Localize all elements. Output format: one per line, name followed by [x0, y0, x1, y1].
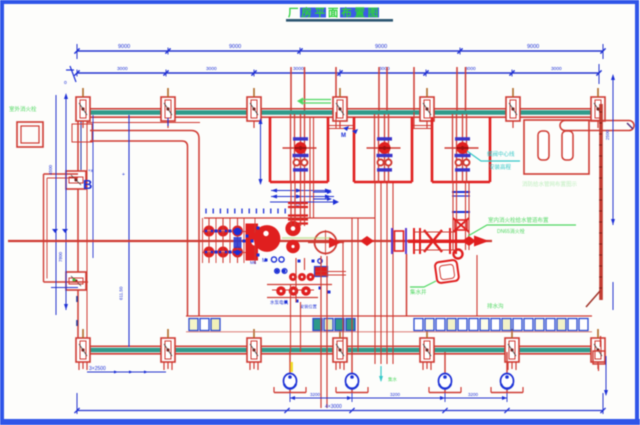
- bay 1 penstock pipes: [291, 114, 305, 183]
- bottom wall red edge lower: [83, 353, 598, 355]
- svg-text:室内消火栓给水管道布置: 室内消火栓给水管道布置: [488, 216, 549, 224]
- drain drop from expansion joint: [406, 254, 408, 316]
- yellow level tick: [290, 362, 293, 372]
- svg-text:7800: 7800: [58, 251, 63, 262]
- bay 3 chamber walls: [432, 117, 490, 182]
- room stair slots: [538, 131, 573, 160]
- bay1 tee flanges: [288, 200, 308, 226]
- drainage pump P3: [429, 352, 461, 393]
- small red box above valve: [455, 220, 467, 230]
- bay 2 penstock pipes: [375, 114, 389, 183]
- svg-text:3200: 3200: [390, 392, 401, 397]
- inner blue line near left wall: [92, 115, 94, 258]
- green sump leader: [410, 281, 436, 296]
- svg-text:o: o: [64, 80, 67, 86]
- connector lines between bays: [329, 126, 432, 129]
- expansion joint: [392, 228, 406, 254]
- floor hatch: [435, 260, 460, 284]
- svg-text:2500: 2500: [605, 129, 610, 140]
- bay 1 butterfly valve: [283, 137, 317, 171]
- svg-text:安装高程: 安装高程: [489, 163, 512, 171]
- bay1 left vertical dim: [259, 118, 263, 185]
- svg-text:集水: 集水: [388, 376, 397, 383]
- svg-text:+x: +x: [88, 168, 94, 173]
- cyan level mark: [379, 366, 397, 383]
- dimension line B (bays, top): [74, 64, 601, 84]
- under-bay1 dimension arrows: [271, 189, 334, 209]
- svg-text:9000: 9000: [375, 44, 387, 50]
- top wall red edge lower: [83, 116, 598, 118]
- svg-text:B: B: [83, 177, 92, 192]
- flange plates: [246, 218, 259, 264]
- svg-text:水泵电机: 水泵电机: [270, 299, 288, 306]
- svg-text:4500: 4500: [48, 164, 53, 175]
- right wall lower: [593, 336, 605, 371]
- svg-text:9000: 9000: [118, 44, 130, 50]
- bay 2 chamber walls: [354, 117, 412, 182]
- svg-text:M: M: [262, 258, 266, 264]
- bay2 pipes down to wall: [375, 183, 393, 364]
- left wall outer line: [77, 97, 79, 350]
- svg-text:室外消火栓: 室外消火栓: [9, 105, 37, 113]
- svg-text:DN65消火栓: DN65消火栓: [497, 228, 525, 235]
- bay 2 butterfly valve: [367, 137, 401, 171]
- red pipe risers above wall: [291, 67, 466, 112]
- blue tick below wall col2: [167, 118, 169, 126]
- title highlight box 2: [340, 8, 379, 18]
- title highlight box 1: [300, 8, 326, 18]
- gate valve with cross: [414, 228, 456, 254]
- dim left end marks: [64, 66, 76, 86]
- svg-text:3000: 3000: [206, 66, 217, 72]
- svg-text:集水井: 集水井: [410, 288, 427, 296]
- blue control valve: [234, 228, 242, 255]
- bay3 pipes down: [453, 183, 469, 250]
- bay 3 penstock pipes: [453, 114, 467, 183]
- svg-text:4×3000: 4×3000: [325, 404, 342, 410]
- upper manifold header line: [204, 217, 375, 219]
- bay3 inline valve: [453, 218, 469, 232]
- left wall inner line: [86, 119, 88, 346]
- green hydrant leader: [468, 216, 576, 236]
- svg-text:3×2500: 3×2500: [89, 366, 106, 372]
- svg-text:蝶阀中心线: 蝶阀中心线: [487, 150, 515, 158]
- drain pipe riser x336: [335, 112, 337, 129]
- title underline: [286, 19, 393, 22]
- dimension line A (overall, top): [74, 44, 605, 59]
- drain pipe riser x414: [413, 112, 415, 129]
- left vertical dimension lines: [48, 93, 78, 326]
- drainage pump P2: [336, 352, 368, 393]
- red flow arrows on centerline: [360, 236, 489, 247]
- svg-text:厂房平面布置图: 厂房平面布置图: [288, 6, 381, 19]
- svg-text:M: M: [341, 133, 346, 139]
- bay 3 butterfly valve: [445, 137, 479, 171]
- svg-text:消防给水管网布置图示: 消防给水管网布置图示: [522, 180, 578, 188]
- cyan leader and labels: [467, 150, 520, 171]
- svg-text:3200: 3200: [468, 392, 479, 397]
- blue bolt marks: [215, 227, 331, 311]
- svg-text:3000: 3000: [551, 66, 562, 72]
- machine pit edge (double line): [90, 131, 199, 317]
- right room walls: [524, 120, 589, 174]
- border frame bottom band: [0, 419, 640, 425]
- svg-text:3000: 3000: [117, 66, 128, 72]
- valve train thick centerline: [408, 240, 472, 243]
- svg-text:611.50: 611.50: [119, 286, 124, 300]
- main horizontal centerline: [8, 240, 492, 242]
- bottom overall dimension: [74, 393, 605, 414]
- penstock/drain verticals: [291, 218, 478, 408]
- walkway / hatch strip: [186, 316, 592, 332]
- small donut row: [289, 273, 315, 281]
- left bottom sub dim: [87, 366, 166, 374]
- red box with blue edge: [315, 267, 328, 277]
- top wall columns row: [76, 88, 605, 128]
- svg-text:+: +: [122, 172, 125, 178]
- bottom wall red edge upper: [83, 345, 598, 347]
- pump spacing dims: [290, 392, 507, 402]
- bay3 drain ring: [454, 250, 463, 259]
- bottom wall columns row: [76, 329, 605, 369]
- bottom wall teal band: [83, 348, 598, 353]
- green leader top: [297, 98, 331, 106]
- drainage pump P1: [274, 352, 306, 393]
- blue guide line with arrow: [270, 199, 339, 205]
- svg-text:3000: 3000: [465, 66, 476, 72]
- svg-text:9000: 9000: [229, 44, 241, 50]
- top wall red edge upper: [83, 108, 598, 110]
- left wall protrusion (tailrace bay): [44, 174, 89, 282]
- small red ring: [285, 221, 300, 253]
- svg-text:3000: 3000: [379, 66, 390, 72]
- right vertical dims: [604, 74, 615, 396]
- svg-text:安装位置: 安装位置: [300, 303, 317, 310]
- manifold valve circles: [202, 218, 258, 263]
- bay 1 chamber walls: [270, 117, 328, 182]
- bay3 pipe flanges: [452, 192, 470, 212]
- right wall door swing: [586, 291, 600, 307]
- svg-text:3200: 3200: [310, 392, 321, 397]
- transformer pad box: [17, 122, 43, 147]
- blue M annotation: [341, 126, 358, 139]
- generator circle: [282, 230, 344, 255]
- svg-text:排水沟: 排水沟: [487, 302, 504, 310]
- drainage pump P4: [491, 352, 523, 393]
- pit centerline blue vertical: [128, 115, 130, 347]
- left wall columns: [66, 171, 86, 290]
- top wall inner face line: [87, 122, 200, 124]
- svg-text:9000: 9000: [527, 44, 539, 50]
- blue tick row: [206, 209, 285, 214]
- svg-text:M6: M6: [250, 260, 257, 265]
- column stubs below wall: [79, 362, 516, 370]
- lower pump cluster: [267, 272, 346, 298]
- pipe sleeve right: [560, 121, 634, 131]
- right wall thick: [599, 104, 602, 300]
- left wall blue segment: [80, 115, 82, 170]
- small pit corner box: [72, 124, 92, 142]
- svg-text:3000: 3000: [293, 66, 304, 72]
- bay1 pipes to manifold: [291, 117, 314, 218]
- top wall teal band: [83, 110, 598, 115]
- turbine spiral case: [254, 225, 281, 252]
- flow arrows: [313, 190, 332, 201]
